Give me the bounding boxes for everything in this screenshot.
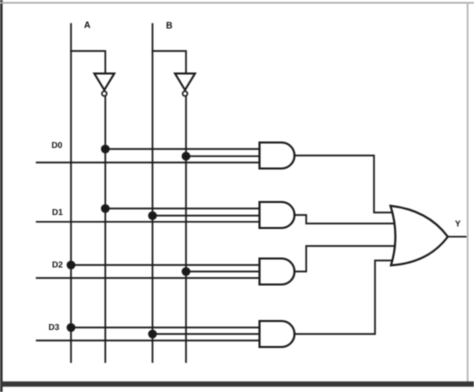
- wire: AND4 output to OR input 4: [295, 261, 395, 335]
- junction dot D0/NOT-A: [101, 145, 110, 154]
- wire: D2 data line: [37, 277, 261, 279]
- wire: NOT-B output vertical: [185, 96, 187, 362]
- left border strip: [0, 0, 3, 392]
- inverter U2 bubble: [183, 91, 188, 96]
- svg-text:B: B: [166, 21, 173, 31]
- top border line: [0, 2, 474, 4]
- junction dot D3/A: [67, 323, 76, 332]
- wire: D3 data line: [37, 340, 261, 342]
- wire: AND1 output to OR input 1: [295, 156, 395, 213]
- junction dot D1/B: [148, 211, 157, 220]
- wire: A branch to inverter U1: [71, 51, 105, 74]
- wire: B branch to inverter U2: [153, 51, 187, 74]
- wire: D1 row middle input (from B): [153, 215, 262, 217]
- AND gate 1 (D0): [260, 143, 295, 169]
- junction dot D3/B: [148, 330, 157, 339]
- wire: select line B vertical: [152, 24, 154, 362]
- inverter U2 (NOT B) triangle: [175, 74, 195, 91]
- inverter U1 (NOT A) triangle: [94, 74, 114, 91]
- wire: select line A vertical: [70, 24, 72, 362]
- junction dot D2/NOT-B: [182, 267, 191, 276]
- wire: D1 row top input (from NOT-A): [105, 208, 261, 210]
- wire: AND3 output to OR input 3: [295, 246, 397, 272]
- wire: NOT-A output vertical: [104, 96, 106, 362]
- svg-text:A: A: [84, 20, 91, 30]
- svg-text:D1: D1: [52, 207, 63, 217]
- wire: AND2 output to OR input 2: [295, 215, 397, 224]
- svg-text:D3: D3: [49, 322, 60, 332]
- junction dot D0/NOT-B: [182, 152, 191, 161]
- junction dot D2/A: [67, 261, 76, 270]
- svg-text:D2: D2: [52, 260, 63, 270]
- AND gate 4 (D3): [260, 321, 295, 347]
- wire: D2 row top input (from A): [71, 264, 261, 266]
- svg-text:D0: D0: [52, 140, 63, 150]
- AND gate 2 (D1): [260, 202, 295, 228]
- junction dot D1/NOT-A: [101, 204, 110, 213]
- wire: D3 row middle input (from B): [153, 333, 262, 335]
- right border line: [467, 2, 469, 382]
- wire: D2 row middle input (from NOT-B): [186, 271, 261, 273]
- wire: D3 row top input (from A): [71, 327, 261, 329]
- wire: D0 row top input (from NOT-A): [105, 148, 261, 150]
- wire: D0 data line: [37, 162, 261, 164]
- svg-text:Y: Y: [455, 219, 461, 229]
- wire: OR output Y: [448, 236, 466, 238]
- bottom border strip: [0, 381, 474, 386]
- OR gate: [391, 206, 448, 265]
- inverter U1 bubble: [102, 91, 107, 96]
- wire: D0 row middle input (from NOT-B): [186, 155, 261, 157]
- AND gate 3 (D2): [260, 259, 295, 285]
- wire: D1 data line: [37, 221, 261, 223]
